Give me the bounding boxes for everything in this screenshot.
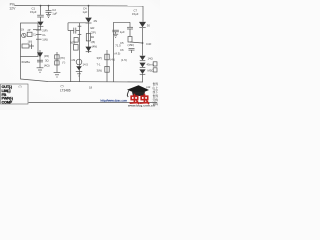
label 4.5 xyxy=(115,51,121,55)
pin label 3ohm xyxy=(91,35,95,39)
value label 6028a xyxy=(22,60,31,64)
svg-text:2N: 2N xyxy=(94,19,98,23)
diode D1 xyxy=(37,22,43,30)
pin label 1(N) xyxy=(42,38,48,42)
svg-text:(4x): (4x) xyxy=(110,57,115,61)
pin label (4N) xyxy=(92,45,98,49)
svg-text:C5: C5 xyxy=(120,41,124,45)
svg-text:1N: 1N xyxy=(21,28,24,31)
transistor Q4 xyxy=(76,59,82,65)
value label C4 xyxy=(83,7,88,14)
svg-text:1µF: 1µF xyxy=(120,30,125,34)
svg-text:(4.5): (4.5) xyxy=(115,51,121,55)
transistor Q1 xyxy=(22,33,26,37)
wire col2 top xyxy=(68,22,89,24)
svg-text:7-1: 7-1 xyxy=(97,62,101,66)
pin label (B) xyxy=(91,40,96,44)
ground col3 xyxy=(76,72,82,76)
svg-text:6028a: 6028a xyxy=(22,60,31,64)
pin label 2(P) xyxy=(42,28,47,32)
value label C7 xyxy=(132,8,139,16)
wire right rail lower xyxy=(142,28,144,56)
wire col4 rail xyxy=(113,22,115,82)
label 71.5 xyxy=(115,44,121,48)
label 14ohm xyxy=(148,57,153,61)
label C4F xyxy=(146,42,152,46)
label C5 xyxy=(120,41,124,45)
resistor R11 xyxy=(153,62,157,66)
wire mid col2 xyxy=(70,31,72,82)
wire branch x88 xyxy=(88,6,90,18)
capacitor C8 xyxy=(112,30,119,34)
svg-text:30: 30 xyxy=(147,23,151,27)
side gray text xyxy=(146,85,151,89)
svg-text:资料: 资料 xyxy=(153,102,159,106)
svg-text:15µF: 15µF xyxy=(30,10,37,14)
svg-text:C4F: C4F xyxy=(146,42,152,46)
pin label (2P) xyxy=(91,30,96,34)
ground stack A xyxy=(54,73,61,77)
label 5B xyxy=(70,41,75,45)
svg-text:15µF: 15µF xyxy=(132,12,139,16)
svg-text:C6: C6 xyxy=(120,48,124,52)
resistor stack A wire xyxy=(56,52,58,72)
capacitor C2 1uF xyxy=(46,6,52,15)
resistor R5b xyxy=(74,45,79,51)
inner pin labels xyxy=(28,33,37,43)
node junction dots xyxy=(40,5,144,44)
wire R9 to rail xyxy=(130,42,143,43)
footer rule xyxy=(29,101,158,103)
svg-text:(15F): (15F) xyxy=(128,43,135,47)
label 15F xyxy=(128,43,135,47)
svg-text:(1.5): (1.5) xyxy=(121,58,127,62)
wire left rail xyxy=(20,57,22,80)
ground below C8 xyxy=(113,34,118,37)
label 1.5 xyxy=(121,58,127,62)
label 7F xyxy=(60,56,65,60)
svg-text:httpː∕∕www.dzsc.com: httpː∕∕www.dzsc.com xyxy=(101,99,128,103)
label 18 gray xyxy=(89,86,93,90)
svg-text:45mA: 45mA xyxy=(147,63,154,67)
LED string D10 xyxy=(139,69,145,74)
svg-text:M5Ω: M5Ω xyxy=(148,69,154,73)
svg-text:p12: p12 xyxy=(146,85,151,89)
pin label ER xyxy=(91,26,95,30)
svg-text:5(B): 5(B) xyxy=(70,41,75,45)
svg-text:(4N): (4N) xyxy=(92,45,98,49)
svg-text:1(N): 1(N) xyxy=(42,38,48,42)
resistor R2 on x88 xyxy=(86,34,90,41)
value label C8 xyxy=(120,30,125,34)
wire top rail xyxy=(15,5,144,8)
resistor stack B wire xyxy=(106,50,108,82)
svg-text:3(P): 3(P) xyxy=(97,56,102,60)
inductor L1 xyxy=(22,44,34,50)
pin table rows xyxy=(2,85,14,104)
svg-text:12V: 12V xyxy=(9,6,16,10)
logo cap xyxy=(127,85,149,97)
wire LED bottom xyxy=(142,74,144,82)
svg-text:-(B): -(B) xyxy=(91,40,96,44)
svg-text:14.5: 14.5 xyxy=(83,63,89,67)
label 14.5 xyxy=(83,63,89,67)
node VIN label xyxy=(9,2,16,10)
label R8 xyxy=(97,69,103,73)
pin ticks col2 xyxy=(78,26,82,34)
svg-text:3Ω: 3Ω xyxy=(91,35,95,39)
svg-text:CL: CL xyxy=(42,33,46,37)
label (*) col2 xyxy=(62,61,65,65)
svg-text:2P: 2P xyxy=(28,29,31,32)
pin stubs right of U1 xyxy=(36,30,42,39)
svg-text:1(N): 1(N) xyxy=(28,40,33,43)
value label D3 xyxy=(147,23,151,27)
wire bottom rail xyxy=(21,79,144,82)
resistor R5a xyxy=(74,38,78,43)
resistor R9 xyxy=(128,37,132,43)
svg-text:(7F): (7F) xyxy=(60,56,65,60)
resistor R1 xyxy=(27,32,32,36)
wire col4 top xyxy=(114,21,131,23)
resistor R6 xyxy=(105,54,109,60)
resistor stack A labels xyxy=(44,54,50,68)
svg-text:1.8k: 1.8k xyxy=(70,58,76,62)
capacitor C1 15uF xyxy=(37,6,44,22)
svg-text:1µF: 1µF xyxy=(83,10,88,14)
diode D3 xyxy=(139,22,146,28)
svg-text:(*): (*) xyxy=(62,61,65,65)
diode D4 xyxy=(37,50,43,68)
IC U1 box xyxy=(21,23,39,57)
label 4x xyxy=(110,57,115,61)
svg-text:18: 18 xyxy=(89,86,93,90)
svg-text:COMP: COMP xyxy=(2,100,13,104)
label 45mA xyxy=(147,63,154,67)
svg-text:2(P): 2(P) xyxy=(42,28,47,32)
side text column xyxy=(153,82,159,106)
ground col1 xyxy=(37,68,44,72)
svg-text:LT3486: LT3486 xyxy=(60,88,71,92)
label R6 xyxy=(97,56,102,60)
svg-text:(2P): (2P) xyxy=(91,30,96,34)
capacitor C10 xyxy=(129,48,135,53)
pin table box xyxy=(1,84,29,104)
svg-text:(*): (*) xyxy=(19,84,22,88)
value label D2 xyxy=(94,19,98,23)
wire x88 mid xyxy=(88,23,90,53)
resistor R7 xyxy=(105,66,109,72)
resistor R12 xyxy=(153,68,157,72)
label M5 xyxy=(148,69,154,73)
svg-text:1µF: 1µF xyxy=(52,11,57,15)
svg-text:(4Ω): (4Ω) xyxy=(44,64,50,68)
wire col2 drop xyxy=(67,23,69,31)
LED string D9 xyxy=(139,63,145,68)
value label C2 xyxy=(52,8,57,15)
capacitor C3 xyxy=(68,28,80,34)
label R7 xyxy=(97,62,101,66)
value label C1 xyxy=(30,6,37,14)
wire D1 to U1 pin xyxy=(33,29,41,31)
diode D6 xyxy=(85,47,91,52)
capacitor C9 xyxy=(127,22,133,36)
svg-text:14Ω: 14Ω xyxy=(148,57,153,61)
diode D7 xyxy=(76,66,82,70)
resistor R3 xyxy=(55,55,59,59)
resistor R4 xyxy=(55,61,59,65)
pin label CL xyxy=(42,33,46,37)
label C6 xyxy=(120,48,124,52)
svg-text:3(N): 3(N) xyxy=(97,69,103,73)
svg-text:3Ω: 3Ω xyxy=(45,59,49,63)
wire col2 rail xyxy=(79,23,81,82)
inner label C1 xyxy=(21,28,31,31)
svg-text:www.bug.com.cn: www.bug.com.cn xyxy=(127,103,155,107)
wire right rail upper xyxy=(142,6,144,22)
label 1.8k xyxy=(70,58,76,62)
diode D2 xyxy=(85,18,92,23)
svg-text:(45): (45) xyxy=(44,54,49,58)
LED string D8 xyxy=(139,56,145,61)
ground below C2 xyxy=(46,14,51,17)
